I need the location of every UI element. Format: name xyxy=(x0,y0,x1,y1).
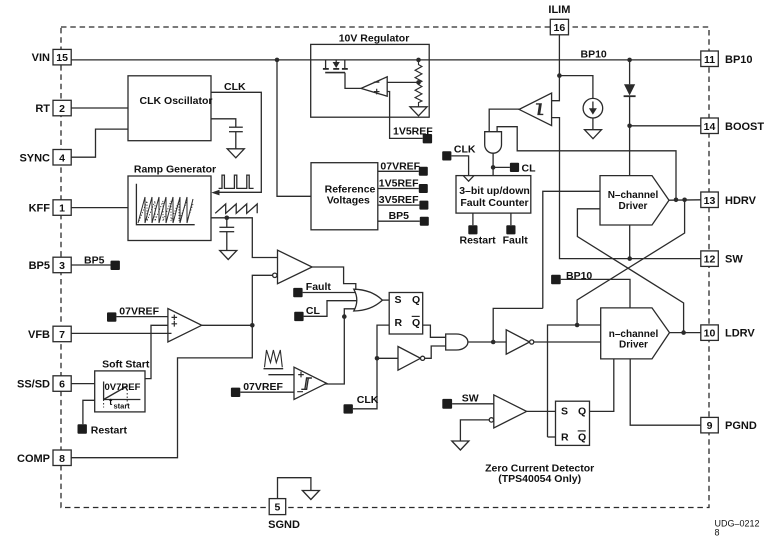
wire soft start comparator + input xyxy=(268,374,294,376)
node junction divider mid xyxy=(416,80,421,85)
wire op-amp inverting input to divider xyxy=(387,81,418,83)
svg-text:1V5REF: 1V5REF xyxy=(379,178,419,190)
net tag Restart (fault counter) xyxy=(460,213,497,246)
svg-text:14: 14 xyxy=(704,121,716,133)
svg-text:1: 1 xyxy=(59,203,65,215)
capacitor on oscillator output xyxy=(211,119,243,149)
wire inverter U5 output to low driver xyxy=(534,341,601,343)
amplifier U6 error amp xyxy=(168,309,202,342)
svg-text:BP5: BP5 xyxy=(29,260,50,272)
op-amp U1 in regulator (points left) xyxy=(361,77,387,96)
wire ILIM pin down xyxy=(552,35,559,101)
wire RT to oscillator xyxy=(71,107,128,109)
wire SS/SD to soft start xyxy=(71,383,95,385)
svg-text:BP5: BP5 xyxy=(389,210,410,222)
svg-text:Q: Q xyxy=(578,406,586,418)
node junction LDRV cross xyxy=(681,330,686,335)
wire low driver bottom to PGND xyxy=(630,359,701,425)
svg-text:Restart: Restart xyxy=(460,235,497,247)
svg-text:13: 13 xyxy=(704,195,716,207)
net tag Fault (OR input) xyxy=(293,281,357,297)
wire CLK output xyxy=(211,92,261,192)
net tag CLK (bottom) xyxy=(344,358,379,413)
wire soft start to error amp input xyxy=(145,325,168,378)
node junction HDRV feedback xyxy=(674,198,679,203)
svg-text:Q: Q xyxy=(578,432,586,444)
diode D1 (BP10 to BOOST) xyxy=(624,60,636,126)
svg-text:9: 9 xyxy=(707,420,713,432)
node junction ramp/capacitor xyxy=(225,216,230,221)
resistor R1 (divider upper) xyxy=(415,60,422,83)
svg-text:VIN: VIN xyxy=(32,52,50,64)
net tag CL (fault counter) xyxy=(493,163,536,175)
wire current source feed xyxy=(559,76,593,99)
pin LDRV 10 xyxy=(701,325,756,341)
gate U9 OR (PWM latch set) xyxy=(354,289,383,311)
wire SW pin xyxy=(630,258,701,260)
ground (zero current comparator) xyxy=(452,441,469,450)
wire inverter U11 output to AND xyxy=(425,346,446,358)
svg-text:R: R xyxy=(561,432,569,444)
svg-text:(TPS40054 Only): (TPS40054 Only) xyxy=(498,473,581,485)
wire latch R input from CLK xyxy=(377,325,389,358)
wire comparator to latch S xyxy=(527,410,556,412)
wire AND output up to high driver xyxy=(493,308,543,342)
net tag SW (zero current comparator) xyxy=(442,393,494,409)
wire ramp output xyxy=(211,218,278,258)
svg-text:start: start xyxy=(114,401,131,410)
svg-text:2: 2 xyxy=(59,103,65,115)
svg-text:PGND: PGND xyxy=(725,420,757,432)
wire SYNC to oscillator xyxy=(71,129,128,157)
wire HDRV output xyxy=(669,199,701,201)
block CLK Oscillator xyxy=(128,76,212,141)
svg-text:0V7REF: 0V7REF xyxy=(105,382,141,393)
svg-text:KFF: KFF xyxy=(29,203,51,215)
ground (SGND) xyxy=(302,491,319,500)
wire zero current latch R input xyxy=(548,436,556,438)
wire ILIM comparator lower input to SW node xyxy=(552,118,630,259)
svg-text:Voltages: Voltages xyxy=(327,194,370,206)
wire OR output to latch S xyxy=(382,299,389,301)
wire zero current latch Q to low driver xyxy=(590,359,614,412)
comparator U2 ILIM (points left, schmitt) xyxy=(519,93,552,126)
transistor pass FET in regulator xyxy=(323,60,361,89)
svg-text:UDG–0212: UDG–0212 xyxy=(715,519,760,529)
pin BP5 3 xyxy=(29,257,72,273)
wire VFB to error amp xyxy=(71,332,171,334)
arrowhead CLK into ramp generator xyxy=(211,190,219,196)
capacitor on ramp output xyxy=(219,218,234,251)
block 3-bit up/down Fault Counter xyxy=(456,176,531,214)
svg-text:CLK: CLK xyxy=(357,394,379,406)
soft start internal graph xyxy=(104,382,141,411)
svg-text:1V5REF: 1V5REF xyxy=(393,126,433,138)
wire AND output to fault counter xyxy=(492,153,494,175)
wire high driver cross input from LDRV xyxy=(577,209,683,333)
svg-text:Fault Counter: Fault Counter xyxy=(460,197,528,209)
pin HDRV 13 xyxy=(701,192,757,208)
ramp generator sawtooth waveform xyxy=(138,197,193,223)
inverter U11 (CLK to AND) xyxy=(377,347,425,371)
pin BP10 11 xyxy=(701,51,753,67)
wire SGND to ground xyxy=(278,478,311,499)
svg-text:CLK: CLK xyxy=(454,144,476,156)
svg-text:3: 3 xyxy=(59,260,65,272)
net tag Restart (soft start) xyxy=(78,400,128,436)
svg-text:Restart: Restart xyxy=(91,425,128,437)
inverter U5 (drives low driver) xyxy=(506,330,534,354)
svg-text:BOOST: BOOST xyxy=(725,121,764,133)
svg-text:Driver: Driver xyxy=(619,340,648,351)
svg-text:BP5: BP5 xyxy=(84,255,105,267)
net tag 07VREF (reference out 1) xyxy=(378,160,428,176)
pin RT 2 xyxy=(35,100,71,116)
svg-text:4: 4 xyxy=(59,152,65,164)
svg-text:LDRV: LDRV xyxy=(725,328,755,340)
block N-channel Driver (high side) xyxy=(600,176,669,225)
pin COMP 8 xyxy=(17,450,71,466)
svg-text:16: 16 xyxy=(554,22,566,34)
wire BP10 to low driver top xyxy=(561,279,630,308)
wire COMP node to pin 8 xyxy=(71,325,252,457)
svg-text:6: 6 xyxy=(59,379,65,391)
svg-text:Ramp Generator: Ramp Generator xyxy=(134,164,216,176)
svg-text:Driver: Driver xyxy=(619,201,648,212)
wire low driver upper input line xyxy=(548,325,601,437)
svg-text:BP10: BP10 xyxy=(725,54,753,66)
ground (ramp capacitor) xyxy=(220,251,237,260)
label Zero Current Detector xyxy=(485,462,594,485)
svg-text:CL: CL xyxy=(306,305,321,317)
pin PGND 9 xyxy=(701,417,757,433)
block Ramp Generator xyxy=(128,164,216,241)
svg-text:CLK Oscillator: CLK Oscillator xyxy=(140,95,213,107)
svg-text:VFB: VFB xyxy=(28,329,50,341)
svg-text:BP10: BP10 xyxy=(581,49,607,61)
node junction CLK/inverter xyxy=(375,356,380,361)
svg-text:8: 8 xyxy=(715,528,720,538)
net tag Fault (fault counter) xyxy=(503,213,529,246)
svg-text:7: 7 xyxy=(59,329,65,341)
wire AND feedback input from HDRV xyxy=(497,127,676,200)
svg-text:n–channel: n–channel xyxy=(609,329,659,340)
svg-text:COMP: COMP xyxy=(17,453,50,465)
node junction BOOST xyxy=(627,124,632,129)
wire soft start comparator output to OR xyxy=(325,309,357,384)
wire VIN/BP10 top rail xyxy=(71,59,701,61)
svg-text:RT: RT xyxy=(35,103,50,115)
IC boundary (dashed border) xyxy=(61,27,709,508)
svg-text:SW: SW xyxy=(725,254,743,266)
pin ILIM 16 (top) xyxy=(548,4,570,35)
svg-text:ILIM: ILIM xyxy=(548,4,570,16)
latch U13 zero current S/R xyxy=(556,401,590,445)
svg-text:SYNC: SYNC xyxy=(19,152,50,164)
node junction HDRV cross xyxy=(682,198,687,203)
svg-text:3–bit up/down: 3–bit up/down xyxy=(459,185,530,197)
net tag 1V5REF (regulator reference) xyxy=(393,126,433,144)
node junction ILIM/current source xyxy=(557,73,562,78)
net tag CLK (fault counter) xyxy=(442,144,476,175)
current source I1 xyxy=(583,98,603,129)
comparator U12 zero current xyxy=(489,395,526,428)
net tag BP5 (reference out 4) xyxy=(378,210,429,226)
svg-text:R: R xyxy=(395,317,403,329)
pin SW 12 xyxy=(701,251,744,267)
node junction AND output branch xyxy=(491,340,496,345)
pin SGND 5 (bottom) xyxy=(268,499,300,531)
symbol pulse spike icon (soft start ramp) xyxy=(264,350,284,369)
wire LDRV output xyxy=(670,332,701,334)
node junction on rail to reference voltages xyxy=(275,58,280,63)
block n-channel Driver (low side) xyxy=(601,308,670,359)
wire high driver gate input (from PWM logic) xyxy=(543,191,600,308)
wire PWM comparator output to OR xyxy=(312,267,356,292)
pin VIN 15 xyxy=(32,49,72,65)
node junction on comparator-OR wire xyxy=(342,314,347,319)
node junction CL tag xyxy=(491,165,496,170)
net tag BP10 (low driver supply) xyxy=(551,270,592,284)
pin SYNC 4 xyxy=(19,150,71,166)
block 10V Regulator xyxy=(311,33,430,118)
svg-text:3V5REF: 3V5REF xyxy=(379,194,419,206)
pin KFF 1 xyxy=(29,200,72,216)
pin SS/SD 6 xyxy=(17,376,71,392)
wire BOOST pin xyxy=(630,125,701,127)
svg-text:Q: Q xyxy=(412,317,420,329)
pin BOOST 14 xyxy=(701,118,765,134)
svg-text:Soft Start: Soft Start xyxy=(102,358,150,370)
svg-text:BP10: BP10 xyxy=(566,270,592,282)
svg-text:HDRV: HDRV xyxy=(725,195,757,207)
svg-text:10: 10 xyxy=(704,328,716,340)
comparator U7 PWM xyxy=(273,250,313,284)
svg-text:Fault: Fault xyxy=(306,281,332,293)
svg-text:12: 12 xyxy=(704,254,716,266)
gate U4 AND PWM (points right) xyxy=(446,334,468,350)
svg-text:Fault: Fault xyxy=(503,235,529,247)
svg-text:N–channel: N–channel xyxy=(608,190,659,201)
wire COMP node to PWM comparator inverting input xyxy=(252,275,272,325)
wire ILIM comparator output xyxy=(489,109,520,132)
svg-text:11: 11 xyxy=(704,54,715,66)
node junction SW xyxy=(627,256,632,261)
wire AND PWM output xyxy=(468,341,506,343)
svg-text:S: S xyxy=(395,294,402,306)
node junction diode top on rail xyxy=(627,58,632,63)
symbol clock pulses icon xyxy=(219,175,254,188)
node junction low driver cross input xyxy=(575,323,580,328)
svg-text:SS/SD: SS/SD xyxy=(17,379,50,391)
wire KFF to ramp generator xyxy=(71,207,128,209)
net tag 1V5REF (reference out 2) xyxy=(378,178,428,194)
wire error amp output xyxy=(202,324,253,326)
svg-text:07VREF: 07VREF xyxy=(243,381,283,393)
svg-text:CLK: CLK xyxy=(224,81,246,93)
symbol sawtooth icon xyxy=(215,204,257,213)
net tag BP5 at pin 3 xyxy=(71,255,120,271)
net tag 07VREF (soft start comparator) xyxy=(231,381,294,397)
wire latch Qbar to AND xyxy=(423,325,446,337)
wire op-amp + input to 1V5REF tag xyxy=(387,92,423,139)
svg-text:SW: SW xyxy=(462,393,479,405)
block Reference Voltages xyxy=(311,163,378,230)
ground (current source) xyxy=(585,130,602,139)
wire zero current comparator inverting input to ground xyxy=(460,420,489,441)
pin VFB 7 xyxy=(28,326,71,342)
svg-text:8: 8 xyxy=(59,453,65,465)
net tag 3V5REF (reference out 3) xyxy=(378,194,429,210)
node junction divider top on rail xyxy=(416,58,421,63)
svg-text:10V Regulator: 10V Regulator xyxy=(339,33,410,45)
resistor R2 (divider lower) xyxy=(415,82,422,106)
net tag 07VREF (error amp ref) xyxy=(107,306,168,322)
net tag CL (OR input) xyxy=(294,301,358,321)
svg-text:15: 15 xyxy=(56,52,68,64)
ground (oscillator capacitor) xyxy=(227,149,244,158)
wire HDRV cross to low driver input xyxy=(577,200,685,325)
wire reference voltages feed xyxy=(277,60,311,196)
wire high driver bottom to SW xyxy=(629,225,631,259)
svg-text:CL: CL xyxy=(522,163,537,175)
wire BOOST to high driver top xyxy=(629,126,631,176)
svg-text:5: 5 xyxy=(274,502,280,514)
svg-text:SGND: SGND xyxy=(268,519,300,531)
svg-text:t: t xyxy=(109,397,112,407)
latch U10 PWM S/R xyxy=(389,293,423,335)
svg-text:Q: Q xyxy=(412,294,420,306)
svg-text:07VREF: 07VREF xyxy=(119,306,159,318)
gate U3 AND current limit (points down) xyxy=(485,132,502,154)
node junction COMP xyxy=(250,323,255,328)
ramp generator waveform axes xyxy=(136,184,194,225)
comparator U8 soft start (schmitt) xyxy=(294,367,327,399)
ramp generator dotted waveform overlay xyxy=(139,201,193,221)
ground (regulator divider) xyxy=(410,107,427,116)
svg-text:S: S xyxy=(561,406,568,418)
block Soft Start xyxy=(95,358,150,412)
svg-text:07VREF: 07VREF xyxy=(380,160,420,172)
